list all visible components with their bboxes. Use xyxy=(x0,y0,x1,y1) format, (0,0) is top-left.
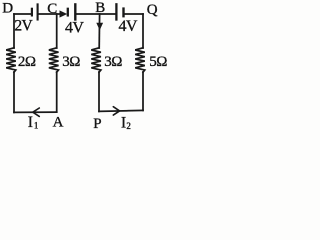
svg-text:4V: 4V xyxy=(119,18,138,35)
svg-text:2V: 2V xyxy=(14,17,33,34)
battery 4V left short plate xyxy=(67,9,69,16)
svg-text:I: I xyxy=(121,114,126,131)
svg-text:3Ω: 3Ω xyxy=(62,54,80,70)
arrow right at node C xyxy=(60,10,68,17)
wire branch D down xyxy=(13,14,15,48)
svg-text:1: 1 xyxy=(34,121,39,131)
arrow I1 chevron on bottom left wire xyxy=(33,108,40,116)
arrow I2 chevron on bottom right wire xyxy=(113,107,119,115)
wire branch C down xyxy=(56,14,58,48)
wire below 2ohm xyxy=(13,72,15,112)
svg-text:C: C xyxy=(47,1,57,17)
svg-text:D: D xyxy=(2,1,13,17)
resistor 3ohm left zigzag xyxy=(49,48,59,72)
arrow down at node B xyxy=(96,23,103,31)
svg-text:4V: 4V xyxy=(65,19,84,36)
battery 2V short plate xyxy=(31,9,33,16)
wire battery to node B to battery xyxy=(76,13,116,15)
svg-text:Q: Q xyxy=(147,2,158,18)
svg-text:B: B xyxy=(95,0,105,16)
battery 4V left long plate xyxy=(74,4,76,19)
wire below 5ohm xyxy=(142,72,144,110)
svg-text:5Ω: 5Ω xyxy=(149,54,167,70)
wire bottom left loop xyxy=(14,111,57,113)
wire bottom right loop xyxy=(99,110,143,111)
battery 4V right short plate xyxy=(122,9,124,17)
wire below 3ohm right xyxy=(98,72,100,111)
svg-text:2Ω: 2Ω xyxy=(18,54,36,70)
svg-text:P: P xyxy=(93,116,101,131)
wire branch Q down xyxy=(142,14,144,48)
wire battery to node C to arrow xyxy=(38,13,63,15)
wire top left D to battery xyxy=(14,13,31,15)
svg-text:3Ω: 3Ω xyxy=(104,54,122,70)
resistor 2ohm zigzag xyxy=(6,48,16,72)
battery 4V right long plate xyxy=(115,4,117,19)
svg-text:2: 2 xyxy=(126,121,130,131)
wire below 3ohm left xyxy=(56,72,58,112)
svg-text:I: I xyxy=(28,114,33,131)
battery 2V long plate xyxy=(37,4,39,19)
wire branch B down xyxy=(98,14,100,48)
resistor 3ohm right zigzag xyxy=(91,48,101,72)
wire battery to corner Q xyxy=(124,13,143,15)
svg-text:A: A xyxy=(53,115,64,131)
resistor 5ohm zigzag xyxy=(135,48,145,72)
